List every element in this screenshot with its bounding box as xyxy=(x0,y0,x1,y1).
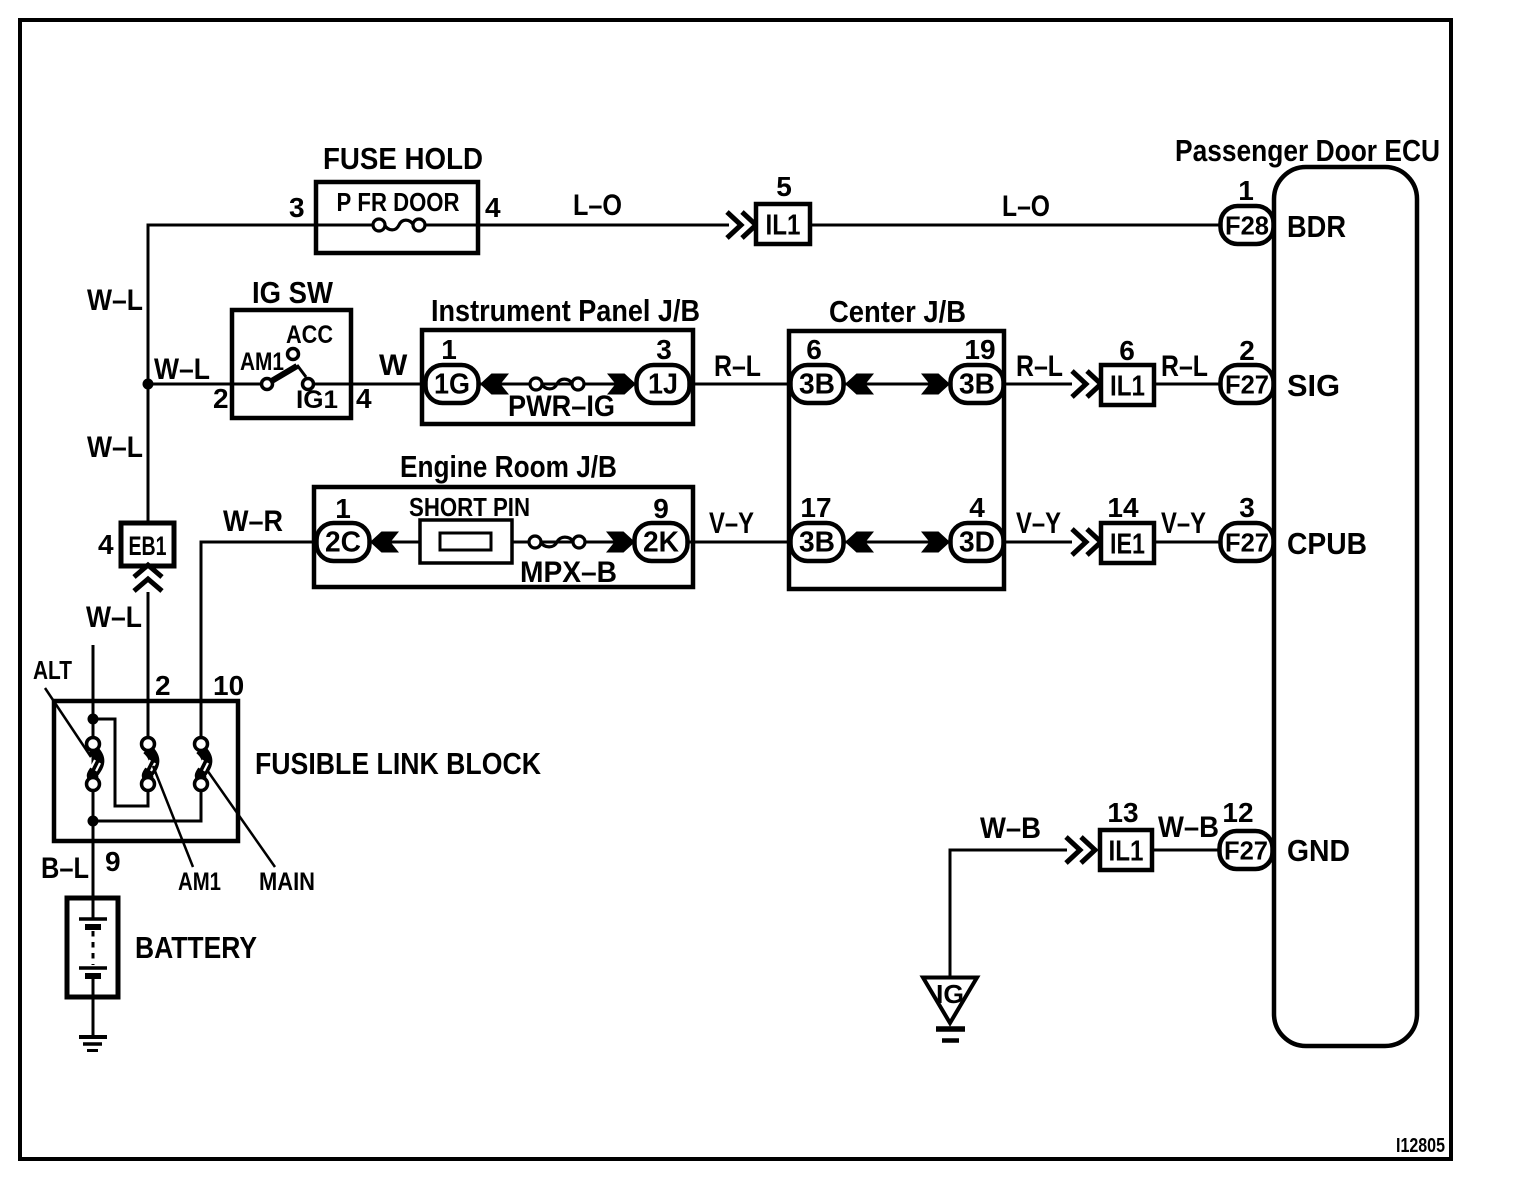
wire label W-R xyxy=(223,505,283,538)
wire label B-L xyxy=(41,852,89,885)
svg-text:19: 19 xyxy=(964,334,995,365)
svg-text:W: W xyxy=(379,349,408,382)
junction block IL1 pin 6 xyxy=(1101,365,1154,405)
label SHORT PIN xyxy=(409,492,530,522)
svg-text:AM1: AM1 xyxy=(178,868,221,896)
connector 3B left bottom xyxy=(791,523,844,561)
svg-text:1: 1 xyxy=(335,493,351,524)
wire label V-Y 1 xyxy=(709,507,754,540)
svg-text:W–B: W–B xyxy=(1158,811,1219,844)
svg-text:W–L: W–L xyxy=(87,284,143,317)
pin 14 IE1 xyxy=(1107,492,1139,523)
connector arrows EB1 xyxy=(134,565,162,591)
label MPX-B xyxy=(520,556,617,589)
short pin box xyxy=(420,520,512,563)
wire EB1 chevrons to fusible link xyxy=(147,592,150,744)
wire label W-B 2 xyxy=(1158,811,1219,844)
connector 2C xyxy=(317,523,370,561)
wire label W-L 2 xyxy=(154,353,210,386)
junction dot W-L xyxy=(143,379,154,390)
pin 4 EB1 xyxy=(98,529,114,560)
wire label R-L 1 xyxy=(714,350,761,383)
arrow right 3D xyxy=(921,532,950,553)
pointer line ALT xyxy=(45,688,91,757)
pin 2 fusible xyxy=(155,670,171,701)
arrow right 3B top xyxy=(921,374,950,395)
wire label V-Y 3 xyxy=(1161,507,1206,540)
pin 6 IL1 xyxy=(1119,335,1135,366)
jumper wire ALT to AM1 link xyxy=(93,719,148,806)
pin 3 F27 xyxy=(1239,492,1255,523)
battery dashed center xyxy=(92,931,95,965)
svg-text:3B: 3B xyxy=(799,369,835,401)
svg-text:12: 12 xyxy=(1222,797,1253,828)
battery plate long top xyxy=(79,917,107,921)
IG SW contact IG1 xyxy=(296,379,338,415)
ECU pin label SIG xyxy=(1287,368,1340,403)
wire into battery xyxy=(92,898,95,920)
svg-text:3D: 3D xyxy=(959,527,995,559)
svg-text:MPX–B: MPX–B xyxy=(520,556,617,589)
pin 12 F27 xyxy=(1222,797,1253,828)
svg-text:IL1: IL1 xyxy=(766,210,801,242)
wire W-R to 2C xyxy=(200,541,318,544)
Instrument Panel J/B box xyxy=(422,330,693,424)
wire junction to IG SW xyxy=(148,383,262,386)
ECU pin label CPUB xyxy=(1287,526,1367,561)
connector F27 CPUB xyxy=(1221,523,1274,561)
wire W-L vertical (row1 corner to EB1) xyxy=(147,224,150,524)
wire ALT xyxy=(92,645,95,898)
arrow right 2K xyxy=(606,532,635,553)
ECU label: Passenger Door ECU xyxy=(1175,133,1440,168)
fusible link ALT xyxy=(87,738,101,791)
svg-text:IG: IG xyxy=(936,979,964,1009)
svg-text:CPUB: CPUB xyxy=(1287,526,1367,561)
wire AM1 link bottom xyxy=(147,784,150,808)
svg-text:2K: 2K xyxy=(643,527,679,559)
label MAIN link xyxy=(259,868,315,896)
IG SW contact ACC xyxy=(286,321,333,360)
connector arrows to IL1 row4 xyxy=(1066,837,1095,863)
wire label W xyxy=(379,349,408,382)
svg-text:IL1: IL1 xyxy=(1109,836,1144,868)
wire IE1 to F27 xyxy=(1154,541,1221,544)
wire 2K to Center J/B xyxy=(687,541,792,544)
svg-text:W–L: W–L xyxy=(154,353,210,386)
wire IL1 to F27 xyxy=(1154,383,1221,386)
wire IL1 to F27 GND xyxy=(1152,849,1219,852)
svg-text:3B: 3B xyxy=(799,527,835,559)
wire IG SW to 1G xyxy=(314,383,426,386)
svg-text:GND: GND xyxy=(1287,833,1350,868)
connector 2K xyxy=(635,523,688,561)
svg-text:FUSE HOLD: FUSE HOLD xyxy=(323,141,483,176)
wire IL1 to F28 xyxy=(810,224,1221,227)
pin 10 fusible xyxy=(213,670,244,701)
svg-text:13: 13 xyxy=(1107,797,1138,828)
wire MAIN link bottom to ALT wire xyxy=(93,784,201,821)
svg-text:4: 4 xyxy=(485,192,501,223)
wire label R-L 3 xyxy=(1161,350,1208,383)
svg-text:PWR–IG: PWR–IG xyxy=(508,390,615,423)
connector arrows to IL1 xyxy=(727,212,756,238)
svg-text:2: 2 xyxy=(213,383,229,414)
svg-text:1: 1 xyxy=(441,334,457,365)
connector arrows to IL1 row2 xyxy=(1072,371,1101,397)
pin 4 xyxy=(485,192,501,223)
ignition switch box IG SW xyxy=(232,310,351,418)
junction block IE1 pin 14 xyxy=(1101,523,1154,563)
ground IG triangle xyxy=(923,978,977,1024)
fusible link block box xyxy=(54,701,238,841)
label FUSIBLE LINK BLOCK xyxy=(255,746,542,781)
svg-text:SHORT PIN: SHORT PIN xyxy=(409,492,530,522)
svg-text:1: 1 xyxy=(1238,175,1254,206)
svg-text:IE1: IE1 xyxy=(1110,529,1145,561)
pin 1 1G xyxy=(441,334,457,365)
junction block EB1 pin 4 xyxy=(121,523,174,566)
IG SW contact AM1 xyxy=(240,348,284,390)
pin 2 F27 xyxy=(1239,335,1255,366)
wire label W-L 1 xyxy=(87,284,143,317)
svg-text:2: 2 xyxy=(1239,335,1255,366)
pin 4 3D xyxy=(969,492,985,523)
wire label V-Y 2 xyxy=(1016,507,1061,540)
svg-text:V–Y: V–Y xyxy=(1161,507,1206,540)
wire label W-L 3 xyxy=(87,431,143,464)
pin 2 IG SW xyxy=(213,383,229,414)
label FUSE HOLD xyxy=(323,141,483,176)
pin 3 1J xyxy=(656,334,672,365)
svg-text:EB1: EB1 xyxy=(129,531,167,561)
wire inside Center J/B top xyxy=(844,383,951,386)
svg-text:FUSIBLE LINK BLOCK: FUSIBLE LINK BLOCK xyxy=(255,746,542,781)
pin 4 IG SW xyxy=(356,383,372,414)
connector 3B left top xyxy=(791,365,844,403)
ground battery xyxy=(79,1037,107,1051)
junction dot ALT top xyxy=(88,714,99,725)
fusible link MAIN xyxy=(195,738,209,791)
svg-text:B–L: B–L xyxy=(41,852,89,885)
svg-text:L–O: L–O xyxy=(1002,190,1050,223)
Center J/B box xyxy=(789,331,1004,589)
label Engine Room J/B xyxy=(400,449,617,484)
connector F28 xyxy=(1221,206,1274,244)
wire inside Engine Room J/B xyxy=(370,541,637,544)
label BATTERY xyxy=(135,930,257,965)
short pin element xyxy=(440,533,491,550)
svg-text:R–L: R–L xyxy=(714,350,761,383)
label AM1 link xyxy=(178,868,221,896)
arrow left 2C xyxy=(370,532,399,553)
connector arrows to IE1 xyxy=(1072,529,1101,555)
svg-text:MAIN: MAIN xyxy=(259,868,315,896)
wire W-R vertical xyxy=(200,542,203,744)
label IG SW xyxy=(252,275,334,310)
Engine Room J/B box xyxy=(314,487,693,587)
label PWR-IG xyxy=(508,390,615,423)
wire label R-L 2 xyxy=(1016,350,1063,383)
svg-text:2C: 2C xyxy=(325,527,361,559)
battery box xyxy=(67,898,118,997)
figure number I12805 xyxy=(1396,1135,1445,1157)
connector 3D xyxy=(951,523,1004,561)
label ALT xyxy=(33,655,72,685)
pin 6 3B xyxy=(806,334,822,365)
pin 19 3B xyxy=(964,334,995,365)
svg-text:6: 6 xyxy=(1119,335,1135,366)
svg-text:IL1: IL1 xyxy=(1110,371,1145,403)
wire fuse to chevrons xyxy=(425,224,729,227)
pointer line MAIN xyxy=(207,770,275,867)
label Instrument Panel J/B xyxy=(431,293,700,328)
svg-text:W–B: W–B xyxy=(980,812,1041,845)
svg-text:SIG: SIG xyxy=(1287,368,1340,403)
svg-text:4: 4 xyxy=(98,529,114,560)
svg-text:9: 9 xyxy=(653,493,669,524)
pin 1 2C xyxy=(335,493,351,524)
connector 1G xyxy=(426,365,479,403)
IG SW lever xyxy=(270,365,306,382)
fuse P FR DOOR element xyxy=(373,219,425,231)
label P FR DOOR xyxy=(337,187,460,217)
connector 1J xyxy=(637,365,690,403)
pin 1 xyxy=(1238,175,1254,206)
svg-text:ACC: ACC xyxy=(286,321,333,349)
pin 3 xyxy=(289,192,305,223)
svg-text:3: 3 xyxy=(289,192,305,223)
wire label W-L 4 xyxy=(86,601,142,634)
svg-text:I12805: I12805 xyxy=(1396,1135,1445,1157)
battery plate long bottom xyxy=(79,966,107,970)
svg-text:F28: F28 xyxy=(1225,211,1269,241)
svg-text:Engine Room J/B: Engine Room J/B xyxy=(400,449,617,484)
pin 13 IL1 xyxy=(1107,797,1138,828)
battery plate short bottom xyxy=(85,973,101,979)
connector F27 SIG xyxy=(1221,365,1274,403)
svg-text:Passenger Door ECU: Passenger Door ECU xyxy=(1175,133,1440,168)
ECU pin label GND xyxy=(1287,833,1350,868)
arrow left 3B bottom xyxy=(845,532,874,553)
svg-text:P FR DOOR: P FR DOOR xyxy=(337,187,460,217)
svg-text:R–L: R–L xyxy=(1016,350,1063,383)
svg-text:W–L: W–L xyxy=(86,601,142,634)
junction dot ALT bottom xyxy=(88,816,99,827)
connector 3B right top xyxy=(951,365,1004,403)
svg-text:3: 3 xyxy=(1239,492,1255,523)
svg-text:Instrument Panel J/B: Instrument Panel J/B xyxy=(431,293,700,328)
pin 5 xyxy=(776,171,792,202)
svg-text:F27: F27 xyxy=(1225,370,1269,400)
arrow left 3B top xyxy=(845,374,874,395)
pin 9 battery xyxy=(105,846,121,877)
wire IG ground to IL1 xyxy=(950,850,1067,977)
Passenger Door ECU body xyxy=(1274,167,1417,1046)
wire label L-O 2 xyxy=(1002,190,1050,223)
wire 3D to IE1 xyxy=(1004,541,1072,544)
svg-text:ALT: ALT xyxy=(33,655,72,685)
svg-text:F27: F27 xyxy=(1225,528,1269,558)
svg-text:3: 3 xyxy=(656,334,672,365)
svg-text:14: 14 xyxy=(1107,492,1139,523)
svg-text:6: 6 xyxy=(806,334,822,365)
fuse holder box FUSE HOLD xyxy=(316,182,478,253)
svg-text:BDR: BDR xyxy=(1287,209,1346,244)
wire row1 to fuse xyxy=(147,224,374,227)
wire battery to ground xyxy=(92,976,95,1037)
svg-text:3B: 3B xyxy=(959,369,995,401)
pin 17 3B xyxy=(800,492,831,523)
junction block IL1 pin 5 xyxy=(756,204,810,244)
svg-text:2: 2 xyxy=(155,670,171,701)
arrow right 1J xyxy=(607,374,636,395)
svg-text:AM1: AM1 xyxy=(240,348,284,376)
fusible link AM1 xyxy=(142,738,156,791)
wire inside Instrument Panel J/B xyxy=(479,383,637,386)
arrow left 1G xyxy=(480,374,509,395)
wire 1J to Center J/B xyxy=(689,383,792,386)
svg-text:10: 10 xyxy=(213,670,244,701)
svg-text:W–L: W–L xyxy=(87,431,143,464)
pointer line AM1 xyxy=(153,766,193,867)
ground IG bars xyxy=(936,1029,965,1041)
svg-text:5: 5 xyxy=(776,171,792,202)
svg-text:1G: 1G xyxy=(434,369,470,401)
wire label L-O xyxy=(573,189,622,222)
junction block IL1 pin 13 xyxy=(1100,830,1152,870)
svg-text:17: 17 xyxy=(800,492,831,523)
wire inside Center J/B bottom xyxy=(844,541,951,544)
svg-text:R–L: R–L xyxy=(1161,350,1208,383)
svg-text:1J: 1J xyxy=(648,369,678,401)
wire 3B to IL1 xyxy=(1004,383,1072,386)
svg-text:L–O: L–O xyxy=(573,189,622,222)
pin 9 2K xyxy=(653,493,669,524)
svg-text:4: 4 xyxy=(356,383,372,414)
fuse MPX-B xyxy=(529,536,585,548)
svg-text:IG SW: IG SW xyxy=(252,275,334,310)
svg-text:9: 9 xyxy=(105,846,121,877)
fuse PWR-IG xyxy=(530,378,584,390)
ECU pin label BDR xyxy=(1287,209,1346,244)
svg-text:4: 4 xyxy=(969,492,985,523)
svg-text:V–Y: V–Y xyxy=(1016,507,1061,540)
wire label W-B 1 xyxy=(980,812,1041,845)
svg-text:V–Y: V–Y xyxy=(709,507,754,540)
svg-text:W–R: W–R xyxy=(223,505,283,538)
svg-text:Center J/B: Center J/B xyxy=(829,294,966,329)
svg-text:IG1: IG1 xyxy=(296,386,338,414)
svg-text:BATTERY: BATTERY xyxy=(135,930,257,965)
battery plate short top xyxy=(85,924,101,930)
label Center J/B xyxy=(829,294,966,329)
svg-text:F27: F27 xyxy=(1224,836,1268,866)
connector F27 GND xyxy=(1220,831,1273,869)
